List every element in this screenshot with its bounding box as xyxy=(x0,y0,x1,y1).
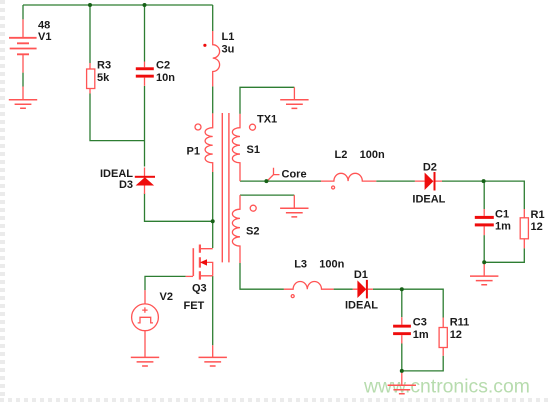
svg-text:Q3: Q3 xyxy=(192,283,207,295)
svg-text:12: 12 xyxy=(531,221,543,233)
svg-text:R11: R11 xyxy=(450,317,470,329)
svg-text:TX1: TX1 xyxy=(257,114,277,126)
svg-text:1m: 1m xyxy=(495,221,511,233)
svg-text:C1: C1 xyxy=(495,209,509,221)
svg-text:1m: 1m xyxy=(413,329,429,341)
svg-text:D1: D1 xyxy=(354,269,368,281)
svg-text:S2: S2 xyxy=(246,226,259,238)
svg-text:V2: V2 xyxy=(160,291,173,303)
svg-text:C3: C3 xyxy=(413,317,427,329)
svg-text:R3: R3 xyxy=(97,60,111,72)
svg-text:S1: S1 xyxy=(247,144,260,156)
svg-text:C2: C2 xyxy=(156,60,170,72)
svg-text:12: 12 xyxy=(450,329,462,341)
svg-text:100n: 100n xyxy=(360,149,385,161)
svg-text:5k: 5k xyxy=(97,72,110,84)
svg-text:L2: L2 xyxy=(335,149,348,161)
svg-text:L1: L1 xyxy=(222,31,235,43)
svg-text:D3: D3 xyxy=(119,179,133,191)
svg-text:P1: P1 xyxy=(187,145,200,157)
svg-text:IDEAL: IDEAL xyxy=(345,299,378,311)
svg-text:D2: D2 xyxy=(423,161,437,173)
svg-text:www.cntronics.com: www.cntronics.com xyxy=(363,376,530,398)
svg-text:100n: 100n xyxy=(319,258,344,270)
svg-text:V1: V1 xyxy=(38,31,51,43)
svg-text:10n: 10n xyxy=(156,72,175,84)
svg-text:IDEAL: IDEAL xyxy=(412,194,445,206)
svg-text:FET: FET xyxy=(184,300,205,312)
svg-text:R1: R1 xyxy=(531,209,545,221)
svg-text:L3: L3 xyxy=(294,258,307,270)
svg-text:48: 48 xyxy=(38,20,50,32)
svg-text:Core: Core xyxy=(282,168,307,180)
svg-text:3u: 3u xyxy=(222,44,235,56)
